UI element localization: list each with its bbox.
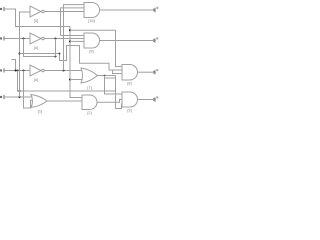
wire inv2 out to AND2.B <box>44 38 84 40</box>
wire in1 to AND3.A <box>70 30 122 66</box>
node in2 branch <box>22 37 24 39</box>
and-gate AND6 [10] <box>122 92 138 107</box>
input c (in3) <box>0 69 4 73</box>
node in1-AND3 branch <box>69 29 71 31</box>
output arrow 2 <box>153 38 155 42</box>
wire in4 riser up to INV1 input <box>20 12 31 97</box>
wire in1 to bus <box>4 9 70 27</box>
wire AND3 output <box>138 71 154 73</box>
node in3 branch 2 <box>22 69 24 71</box>
and-gate AND5 [2] <box>82 95 97 110</box>
wire y78 stub <box>105 77 116 79</box>
svg-text:[7]: [7] <box>87 85 91 90</box>
output arrow 3 <box>153 70 155 74</box>
svg-text:[3]: [3] <box>127 108 131 113</box>
wire in2 branch down <box>24 39 56 57</box>
wire in3 branch down to y91 <box>18 71 123 95</box>
inverter U5 [5] <box>30 65 44 76</box>
svg-text:[3]: [3] <box>34 18 38 23</box>
svg-text:[9]: [9] <box>89 49 93 54</box>
wire AND3.C tee <box>113 70 123 74</box>
svg-text:[15]: [15] <box>88 18 95 23</box>
output label 4 <box>156 96 158 98</box>
node in2-inv2out join <box>54 55 56 57</box>
wire in4 to OR2.A <box>4 96 33 98</box>
svg-text:[4]: [4] <box>34 45 38 50</box>
input b (in2) <box>0 37 4 41</box>
wire in3 branch to OR2.B <box>24 71 33 109</box>
output label 1 <box>156 7 158 9</box>
node in1-AND2.C branch <box>69 40 71 42</box>
node in3 branch 1 <box>16 69 18 71</box>
svg-text:[2]: [2] <box>87 110 91 115</box>
wire OR1 output <box>98 75 116 77</box>
wire AND2.A from riser <box>61 35 85 37</box>
node in4-inv1 riser <box>18 96 20 98</box>
wire in4 branch to AND3.B <box>20 46 123 71</box>
wire OR1out to AND6.C long path <box>116 76 123 109</box>
output label 3 <box>156 69 158 71</box>
gate labels <box>34 18 132 115</box>
wire AND1 output <box>100 9 154 11</box>
input a (in1) <box>0 7 4 11</box>
wire in3 to INV3 <box>4 70 30 72</box>
and-gate AND3 [8] <box>122 64 138 80</box>
output arrow 4 <box>153 97 155 101</box>
wire inv3 out to OR1.A <box>44 70 82 72</box>
wire AND6 output <box>138 99 154 101</box>
svg-text:[8]: [8] <box>127 81 131 86</box>
wire stub y59.5 <box>12 60 16 71</box>
svg-text:[4]: [4] <box>34 77 38 82</box>
wire OR2 out to AND5.B <box>48 100 83 102</box>
node in1-OR1.B branch <box>69 78 71 80</box>
or-gate OR2 [6] <box>31 95 47 108</box>
node riser y91 <box>19 90 21 92</box>
output arrow 1 <box>153 8 155 12</box>
wire inv3out branch up to AND1.A <box>64 5 85 71</box>
node inv3out branch <box>62 69 64 71</box>
node OR1out branch x104.5 <box>104 75 106 77</box>
input d (in4) <box>0 95 4 99</box>
wire inv1 out to AND1.C <box>44 11 84 13</box>
and-gate AND1 [15] <box>84 2 100 17</box>
wire OR1out down x104.5 to y91 <box>105 76 116 92</box>
wire inv2out branch down <box>55 39 57 57</box>
wire in2 to INV2 <box>4 38 30 40</box>
node in3 x15.5 <box>15 70 17 72</box>
wire in1 to OR1.B <box>70 79 83 81</box>
or-gate OR1 [7] <box>81 68 98 83</box>
node at x59.5 <box>59 53 61 55</box>
svg-text:[1]: [1] <box>38 109 42 114</box>
wire AND2 output <box>100 40 154 42</box>
wire in1 to AND2.C <box>70 40 84 42</box>
wire in1 vertical x70 down <box>70 27 82 98</box>
node inv2out branch <box>54 37 56 39</box>
output label 2 <box>156 37 158 39</box>
wire AND5 out to AND6.A <box>97 100 123 103</box>
inverter U3 [3] <box>30 6 44 17</box>
wire AND1.B riser <box>61 8 85 36</box>
and-gate AND2 [9] <box>84 33 100 48</box>
node in4 branch y53.5 <box>18 52 20 54</box>
inverter U4 [4] <box>30 33 44 44</box>
